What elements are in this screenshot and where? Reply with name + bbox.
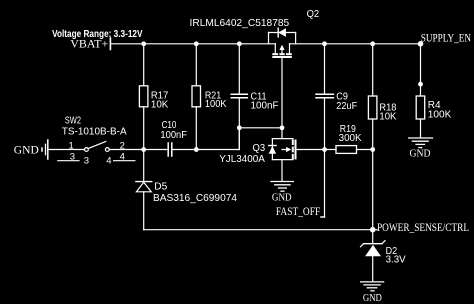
svg-text:100K: 100K — [205, 98, 227, 110]
transistor Q2 — [190, 8, 320, 57]
svg-text:4: 4 — [106, 155, 111, 166]
node switch/R17/D5 junction — [141, 147, 146, 152]
svg-text:Q2: Q2 — [307, 8, 320, 20]
node C11 top junction — [237, 41, 242, 46]
wire R21 top — [195, 44, 197, 86]
svg-text:100K: 100K — [428, 109, 452, 121]
wire C10 to corner — [172, 149, 240, 151]
svg-text:TS-1010B-B-A: TS-1010B-B-A — [62, 126, 127, 138]
bottom bar — [272, 159, 293, 161]
svg-text:1: 1 — [69, 140, 74, 151]
wire R17 bottom — [143, 107, 145, 150]
node R17 top junction — [141, 41, 146, 46]
svg-text:4: 4 — [120, 152, 125, 163]
svg-text:10K: 10K — [379, 110, 396, 122]
wire R17 top — [143, 44, 145, 86]
node R21 top junction — [194, 41, 199, 46]
resistor R21 — [192, 86, 227, 110]
node FAST_OFF junction — [322, 147, 327, 152]
diode D2 (zener) — [361, 230, 406, 282]
body arrow — [282, 149, 287, 151]
node R19/R18 junction — [370, 147, 375, 152]
svg-text:22uF: 22uF — [336, 100, 357, 112]
wire R4 bottom — [420, 119, 422, 138]
resistor R18 — [368, 96, 396, 122]
body diode loop — [268, 33, 270, 44]
gate plate — [272, 56, 292, 58]
node C11/gate junction — [237, 125, 242, 130]
resistor R19 — [336, 123, 362, 153]
wire top rail right — [290, 43, 421, 45]
wire Q2 gate down — [281, 57, 283, 128]
node R18 top junction — [370, 41, 375, 46]
body line — [271, 139, 273, 160]
svg-text:3.3V: 3.3V — [386, 254, 406, 266]
wire R18 bottom — [372, 119, 374, 150]
svg-text:100nF: 100nF — [251, 99, 279, 111]
node R4 mid junction — [418, 82, 423, 87]
node POWER_SENSE junction — [370, 227, 376, 233]
svg-text:3: 3 — [84, 155, 89, 166]
wire C11 bottom — [238, 98, 240, 150]
svg-text:3: 3 — [70, 152, 75, 163]
svg-text:10K: 10K — [151, 99, 168, 111]
switch SW2 — [58, 115, 135, 167]
svg-text:IRLML6402_C518785: IRLML6402_C518785 — [190, 17, 290, 29]
contact left — [85, 148, 89, 152]
channel stubs — [274, 44, 276, 54]
wire C9 bottom to FAST_OFF — [324, 98, 326, 217]
svg-text:BAS316_C699074: BAS316_C699074 — [153, 192, 237, 204]
wire SUPPLY_EN down — [420, 44, 422, 96]
wire R21 bottom — [195, 107, 197, 150]
pin 4 stub — [114, 160, 135, 162]
channel dashes — [292, 140, 294, 146]
resistor R17 — [139, 86, 168, 111]
wire Q3 source — [281, 160, 283, 182]
wire Q3 drain — [281, 128, 283, 139]
port FAST_OFF — [276, 206, 325, 218]
wire top rail left — [110, 43, 275, 45]
ground below R4 — [409, 138, 433, 160]
svg-text:GND: GND — [272, 192, 292, 203]
svg-text:FAST_OFF: FAST_OFF — [276, 206, 320, 218]
wire switch to C10 — [109, 149, 167, 151]
ground below Q3 — [271, 182, 293, 204]
wire POWER_SENSE horizontal — [144, 229, 373, 231]
node SUPPLY_EN corner — [418, 41, 424, 47]
lever — [88, 142, 106, 149]
wire gate node horizontal — [239, 127, 282, 129]
wire C11 top — [238, 44, 240, 94]
svg-text:SUPPLY_EN: SUPPLY_EN — [421, 33, 472, 45]
node C9 top junction — [322, 41, 327, 46]
wire C9 top — [324, 44, 326, 94]
wire corner up — [238, 128, 240, 150]
wire R18 top — [372, 44, 374, 96]
contact right — [105, 148, 109, 152]
body diode — [269, 145, 276, 147]
svg-text:GND: GND — [14, 145, 39, 157]
svg-text:VBAT+: VBAT+ — [70, 38, 108, 50]
wire GND to switch — [48, 149, 85, 151]
port POWER_SENSE/CTRL — [373, 222, 469, 234]
capacitor C10 — [160, 119, 187, 156]
channel dashes — [272, 53, 278, 55]
svg-text:100nF: 100nF — [160, 129, 187, 141]
wire down to POWER_SENSE — [372, 150, 374, 230]
body arrow — [281, 47, 283, 54]
port GND left — [14, 140, 48, 159]
svg-text:D5: D5 — [154, 181, 167, 193]
diode D5 — [136, 150, 237, 230]
port VBAT+ — [70, 38, 110, 50]
svg-text:YJL3400A: YJL3400A — [219, 153, 265, 165]
wire R19 right — [357, 149, 373, 151]
svg-text:GND: GND — [410, 149, 431, 160]
svg-text:POWER_SENSE/CTRL: POWER_SENSE/CTRL — [377, 222, 469, 234]
resistor R4 — [416, 96, 451, 121]
pin 3 stub — [58, 160, 79, 162]
capacitor C9 — [316, 91, 357, 112]
node Q2 gate / Q3 drain junction — [280, 125, 285, 130]
gate plate — [295, 140, 297, 160]
svg-text:300K: 300K — [339, 132, 362, 144]
node R21 bottom junction — [194, 147, 199, 152]
top bar — [272, 138, 293, 140]
wire Q3 gate to R19 — [296, 149, 337, 151]
capacitor C11 — [231, 90, 278, 111]
svg-text:GND: GND — [363, 293, 382, 304]
ground below D2 — [361, 282, 384, 304]
transistor Q3 — [219, 139, 295, 165]
